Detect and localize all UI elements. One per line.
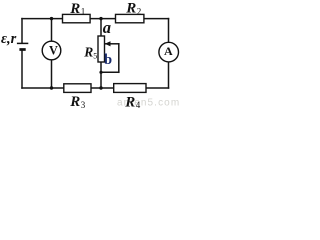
resistor R3 — [64, 84, 91, 93]
wire wiper bottom horizontal — [101, 71, 119, 73]
svg-text:2: 2 — [137, 6, 142, 16]
svg-text:R: R — [83, 44, 93, 59]
svg-text:V: V — [49, 43, 58, 57]
svg-text:3: 3 — [81, 100, 86, 108]
wiper arrowhead — [105, 41, 111, 46]
battery cell short thick plate — [19, 48, 25, 51]
node dot junction V top — [50, 17, 53, 20]
node dot junction R5 bottom — [99, 86, 102, 89]
svg-text:R: R — [124, 95, 135, 109]
wire bottom — [22, 87, 169, 89]
wire wiper right vertical — [118, 44, 120, 73]
wire ammeter branch lower — [168, 62, 170, 88]
wire ammeter branch upper — [168, 19, 170, 43]
wire R5 branch lower — [100, 62, 102, 88]
svg-text:a: a — [103, 18, 111, 37]
svg-text:4: 4 — [136, 100, 141, 108]
svg-text:A: A — [164, 44, 173, 58]
wire R5 branch upper — [100, 19, 102, 36]
resistor R2 — [116, 14, 144, 22]
wire voltmeter branch lower — [51, 60, 53, 88]
svg-text:b: b — [104, 52, 112, 68]
wire left lower — [21, 51, 23, 88]
wire top — [22, 18, 169, 20]
svg-text:R: R — [69, 94, 80, 108]
svg-text:R: R — [125, 1, 136, 17]
svg-text:ε,r: ε,r — [1, 31, 17, 47]
resistor R5 (potentiometer body) — [98, 36, 105, 62]
wire voltmeter branch upper — [51, 19, 53, 42]
node dot junction R5 top (node a) — [99, 17, 102, 20]
battery cell long plate — [17, 42, 28, 44]
svg-text:R: R — [69, 1, 80, 17]
wire wiper horizontal — [106, 43, 119, 45]
svg-text:1: 1 — [81, 7, 86, 17]
node dot wiper join — [99, 71, 102, 74]
wire left upper — [21, 19, 23, 43]
ammeter U-A circle — [159, 42, 179, 62]
node dot junction V bottom — [50, 86, 53, 89]
resistor R4 — [114, 84, 146, 93]
svg-text:5: 5 — [93, 51, 97, 60]
voltmeter U-V circle — [42, 41, 61, 60]
resistor R1 — [63, 14, 91, 22]
